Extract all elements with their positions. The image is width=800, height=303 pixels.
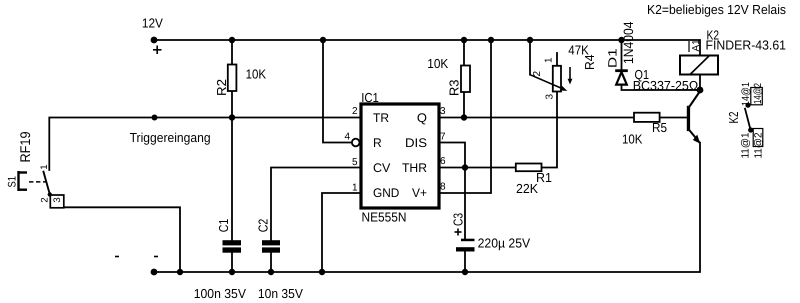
svg-text:BC337-25Ω: BC337-25Ω [633,78,699,93]
svg-text:CV: CV [373,161,391,175]
svg-text:THR: THR [402,161,427,175]
svg-text:11@1: 11@1 [739,132,751,158]
svg-text:GND: GND [373,186,399,200]
svg-text:D1: D1 [606,48,620,68]
svg-text:C1: C1 [216,219,231,233]
svg-text:IC1: IC1 [361,90,379,105]
svg-text:7: 7 [440,132,446,143]
svg-text:4: 4 [344,132,350,143]
svg-text:C2: C2 [255,219,270,233]
svg-text:S1: S1 [6,176,18,188]
svg-text:220µ 25V: 220µ 25V [478,236,531,251]
svg-text:5: 5 [352,157,358,168]
svg-text:K2=beliebiges 12V Relais: K2=beliebiges 12V Relais [647,2,786,17]
svg-text:R3: R3 [447,80,462,97]
svg-text:1: 1 [39,165,50,170]
svg-text:R1: R1 [536,170,552,185]
svg-text:R5: R5 [652,120,667,135]
svg-text:2: 2 [532,71,543,77]
svg-text:R2: R2 [214,79,229,96]
svg-text:DIS: DIS [405,136,427,150]
svg-text:10K: 10K [427,56,448,71]
svg-text:Triggereingang: Triggereingang [130,130,211,145]
svg-text:1: 1 [544,57,555,63]
svg-text:1N4004: 1N4004 [621,21,636,64]
svg-text:A1: A1 [691,39,702,52]
svg-text:R4: R4 [582,54,597,70]
svg-text:11@2: 11@2 [753,132,765,158]
svg-text:3: 3 [440,106,446,117]
svg-text:FINDER-43.61: FINDER-43.61 [706,38,787,53]
svg-text:12V: 12V [142,15,163,30]
svg-text:10K: 10K [622,132,643,147]
svg-text:10K: 10K [246,67,267,82]
svg-text:RF19: RF19 [17,131,33,162]
svg-text:R: R [373,136,382,150]
svg-text:14@1: 14@1 [740,82,752,106]
svg-text:2: 2 [352,106,358,117]
svg-text:8: 8 [440,182,446,193]
svg-text:3: 3 [545,94,556,100]
svg-text:V+: V+ [412,186,427,200]
svg-text:2: 2 [40,197,51,202]
svg-text:K2: K2 [726,112,741,124]
svg-text:10n 35V: 10n 35V [258,286,303,301]
svg-text:C3: C3 [451,213,466,226]
svg-text:22K: 22K [516,181,538,196]
svg-text:NE555N: NE555N [362,210,407,225]
svg-text:100n 35V: 100n 35V [194,286,247,301]
svg-text:TR: TR [373,111,389,125]
svg-text:6: 6 [440,156,446,167]
svg-text:3: 3 [52,197,63,202]
svg-text:Q: Q [417,111,427,125]
svg-text:1: 1 [352,183,358,194]
svg-text:14@2: 14@2 [752,83,764,104]
